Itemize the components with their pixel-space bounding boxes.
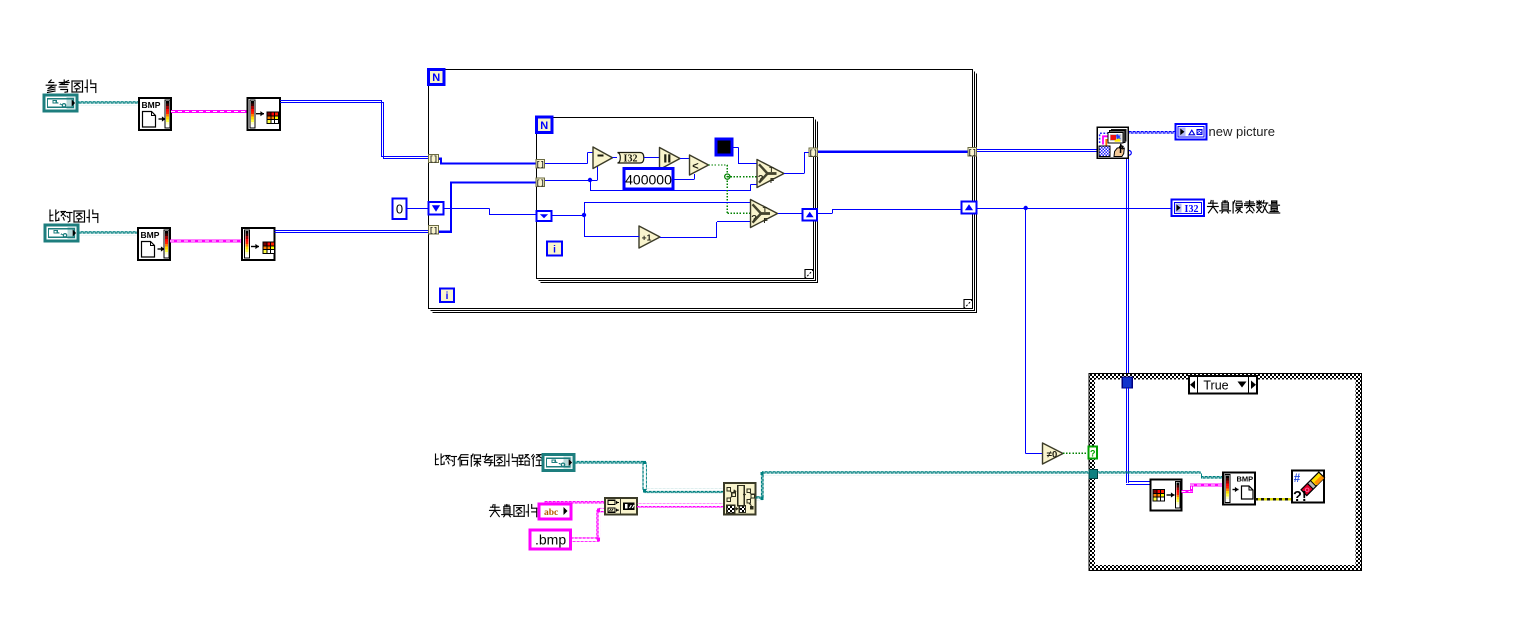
svg-text:F: F: [770, 178, 775, 185]
svg-text:T: T: [763, 207, 768, 214]
wire subtract to I32: [613, 157, 618, 159]
svg-text:True: True: [1203, 379, 1228, 393]
svg-text:BMP: BMP: [1237, 475, 1254, 484]
svg-text:[]: []: [536, 180, 544, 188]
svg-text:?: ?: [1090, 449, 1096, 459]
wire shift register to inner: [444, 208, 490, 210]
absolute value function: [660, 148, 681, 170]
less-than function: [690, 155, 709, 175]
wire 2D array to outer loop: [280, 101, 429, 157]
svg-text:BMP: BMP: [141, 230, 160, 240]
wire boolean to select1: [727, 176, 757, 178]
path control 比对图片: [45, 225, 78, 241]
svg-text:[]: []: [809, 150, 817, 158]
tunnel outer left 2: [429, 226, 439, 235]
Unflatten Pixmap icon U4: [242, 228, 275, 260]
svg-text:N: N: [540, 120, 548, 132]
label 失真图片: [490, 505, 537, 517]
label 参考图片: [46, 80, 96, 93]
wire error cluster: [1255, 498, 1292, 501]
terminal bump: [1129, 151, 1131, 156]
wire 2D array down to case: [1126, 159, 1128, 482]
tunnel inner left 2: [536, 178, 545, 187]
svg-text:[]: []: [429, 156, 437, 164]
tunnel case selector: [1089, 447, 1098, 459]
wire I32 to abs: [644, 157, 660, 159]
subtract function: [593, 147, 613, 169]
wire 2D array to Draw Pixmap: [977, 149, 1098, 151]
svg-text:?!: ?!: [1293, 489, 1307, 505]
svg-text:≠0: ≠0: [1047, 450, 1058, 461]
svg-text:i: i: [446, 291, 449, 302]
Unflatten Pixmap icon U2: [248, 98, 281, 130]
shift register outer right: [962, 202, 977, 214]
svg-text:.bmp: .bmp: [535, 532, 566, 548]
svg-text:T: T: [769, 167, 774, 174]
wire corner patches: [643, 461, 646, 464]
wire count to outer shift: [817, 213, 832, 215]
node A junction: [588, 178, 592, 182]
wire 2D array to outer loop: [275, 230, 429, 232]
shift register outer left: [429, 202, 444, 215]
wire boolean to select2: [727, 212, 750, 214]
svg-text:abc: abc: [544, 508, 558, 518]
wire boolean from less-than: [709, 164, 728, 166]
Write BMP File icon U7: [1223, 473, 1255, 505]
wire 0 to shift register: [407, 208, 429, 210]
for-loop outer frame: [429, 70, 973, 309]
svg-text:BMP: BMP: [142, 100, 161, 110]
case structure frame: [1089, 374, 1362, 571]
wire +1 to select2 F: [660, 237, 717, 239]
wire shift to select2 top: [552, 215, 585, 217]
Read BMP File icon U1: [139, 98, 171, 130]
for-loop inner frame: [537, 118, 814, 279]
constant 0: [393, 199, 407, 220]
Concatenate Strings function: [605, 498, 637, 515]
wire shift to +1: [584, 215, 586, 237]
wire path to build path: [574, 460, 646, 465]
wire path teal: [78, 101, 140, 106]
tunnel outer right: [968, 148, 977, 157]
svg-text:i: i: [553, 245, 556, 256]
increment function +1: [639, 226, 660, 248]
svg-text:I32: I32: [624, 154, 638, 165]
wire select1 out: [784, 173, 804, 175]
To I32 conversion: [618, 153, 644, 164]
wire cluster to Write BMP: [1182, 490, 1194, 493]
tunnel overlays: [429, 155, 439, 163]
wire abs to less-than: [680, 158, 690, 160]
wire .bmp to concat: [571, 537, 600, 542]
svg-text:new picture: new picture: [1209, 124, 1275, 139]
svg-text:[]: []: [968, 149, 976, 157]
constant 400000: [624, 169, 673, 190]
svg-text:I32: I32: [1185, 204, 1199, 215]
wire boolean to case selector: [1063, 452, 1089, 454]
wire cluster pink: [171, 110, 248, 113]
wire colorbox to select1 T: [733, 147, 739, 149]
indicator new picture: [1176, 124, 1207, 140]
svg-text:?: ?: [751, 214, 757, 225]
tunnel case left teal: [1089, 470, 1098, 479]
Simple Error Handler icon U8: [1292, 471, 1324, 503]
shift register inner left: [537, 211, 552, 221]
loop count N outer: [429, 70, 445, 85]
svg-text:#: #: [1294, 473, 1301, 485]
label 比对图片: [50, 210, 98, 223]
wire concat to build path: [637, 503, 724, 508]
wire 400000 to less-than: [673, 179, 694, 181]
string constant .bmp: [530, 530, 571, 549]
wire count down to compare: [1025, 208, 1027, 453]
Flatten Pixmap icon U6: [1151, 480, 1182, 511]
string control 失真图片: [539, 504, 571, 519]
svg-text:F: F: [764, 218, 769, 225]
Read BMP File icon U3: [138, 228, 170, 260]
wire count to indicator: [977, 208, 1172, 210]
wire 1D array upper: [439, 158, 443, 160]
path control 参考图片: [44, 95, 77, 111]
svg-text:N: N: [432, 72, 440, 84]
select function 2: [751, 200, 778, 228]
svg-text:400000: 400000: [625, 172, 672, 188]
wire 1D array lower: [439, 231, 453, 233]
loop count N inner: [537, 117, 553, 133]
wire cluster pink: [170, 240, 242, 243]
iteration i inner: [547, 242, 562, 256]
wire select2 to shift register: [778, 213, 802, 215]
node boolean junction: [725, 174, 730, 179]
node B junction: [582, 213, 586, 217]
tunnel inner right: [809, 148, 818, 157]
tunnel inner left 1: [536, 160, 545, 169]
case selector label True: [1189, 376, 1257, 394]
wire index to subtract bottom: [542, 180, 591, 182]
wire index to subtract top: [542, 163, 588, 165]
shift register inner right: [803, 209, 818, 221]
svg-text:+1: +1: [642, 233, 652, 243]
wire 1D out of inner loop: [818, 151, 969, 153]
svg-text:?: ?: [758, 174, 764, 185]
label 失真像素数量: [1208, 201, 1280, 214]
svg-text:[]: []: [536, 161, 544, 169]
label 比对后保存图片路径: [436, 454, 543, 466]
svg-text:0: 0: [396, 202, 403, 217]
indicator I32 失真像素数量: [1172, 200, 1205, 217]
select function 1: [757, 160, 784, 188]
Build Path function: [724, 483, 756, 515]
wire pixel to select1 F: [590, 180, 592, 191]
iteration i outer: [440, 289, 454, 303]
tunnel outer left 1: [429, 155, 439, 163]
wire path to case: [756, 496, 764, 501]
wire path teal: [79, 231, 139, 236]
tunnel case top blue: [1122, 377, 1132, 388]
wire picture to indicator: [1129, 129, 1176, 134]
color box constant black: [716, 139, 732, 155]
svg-text:<: <: [692, 161, 698, 173]
wire 2D array inside case: [1126, 388, 1128, 483]
node C junction: [1023, 206, 1027, 210]
svg-text:[]: []: [429, 227, 437, 235]
path control 比对后保存图片路径: [543, 455, 574, 471]
Draw Flattened Pixmap icon U5: [1097, 127, 1128, 158]
wire path inside case: [1098, 471, 1202, 476]
wire string to concat: [544, 499, 605, 504]
not equal to 0 function: [1043, 443, 1064, 464]
